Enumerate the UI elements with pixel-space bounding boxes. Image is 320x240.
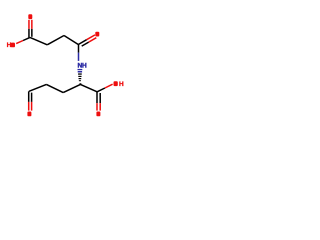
svg-text:NH: NH <box>78 62 87 69</box>
svg-text:H: H <box>119 81 124 88</box>
svg-text:H: H <box>7 42 12 49</box>
